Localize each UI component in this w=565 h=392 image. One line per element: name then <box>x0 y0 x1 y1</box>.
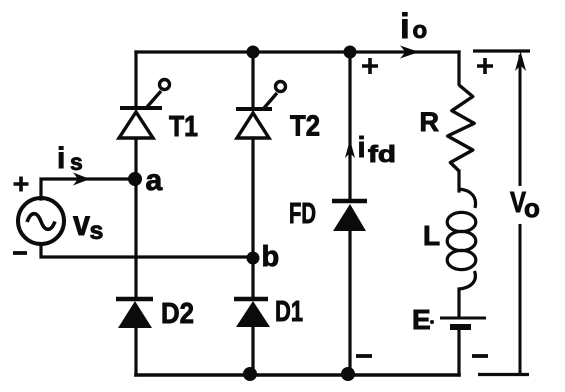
wire bottom rail <box>136 373 459 377</box>
minus sign fd bottom <box>356 354 372 358</box>
plus sign dc rail <box>362 58 378 74</box>
thyristor T1 <box>119 80 170 139</box>
wire battery to bottom rail <box>457 328 460 375</box>
arrow is <box>73 173 90 186</box>
svg-text:s: s <box>90 217 104 245</box>
plus sign load <box>477 58 493 74</box>
svg-text:L: L <box>423 220 440 251</box>
svg-text:b: b <box>262 241 280 273</box>
svg-text:o: o <box>524 193 540 223</box>
inductor L <box>447 189 476 289</box>
plus sign source <box>14 177 29 192</box>
node a junction dot <box>128 172 142 186</box>
freewheeling diode FD <box>332 201 367 231</box>
wire top rail <box>136 50 459 53</box>
wire D2 anode to bottom rail <box>134 329 137 375</box>
label vs <box>73 204 103 245</box>
minus sign load bottom <box>472 354 488 358</box>
thyristor T2 <box>236 82 286 139</box>
svg-text:s: s <box>70 149 83 175</box>
label Vo <box>510 187 540 223</box>
minus sign source <box>13 251 27 255</box>
svg-text:T1: T1 <box>169 111 198 143</box>
wire source plus lead <box>41 179 136 199</box>
wire D1 anode to bottom rail <box>251 328 254 375</box>
resistor R <box>448 85 475 171</box>
vo arrow vertical line <box>519 55 522 374</box>
svg-text:i: i <box>358 132 366 164</box>
svg-text:o: o <box>413 17 428 44</box>
svg-text:D2: D2 <box>161 298 194 330</box>
label ifd <box>358 132 397 167</box>
wire T2 cathode to node b <box>251 138 254 258</box>
node b junction dot <box>247 252 260 265</box>
wire inductor to battery <box>457 289 460 317</box>
svg-text:a: a <box>146 164 163 197</box>
wire node a to D2 cathode <box>134 179 137 298</box>
dot after E <box>430 320 434 324</box>
wire resistor to inductor <box>457 171 460 191</box>
wire FD cathode lead <box>348 52 351 200</box>
ac source vs <box>18 198 64 244</box>
wire T1 top lead <box>134 52 137 107</box>
vo arrowhead <box>515 51 526 71</box>
arrow ifd <box>345 140 355 159</box>
svg-text:fd: fd <box>368 141 396 167</box>
svg-text:R: R <box>420 107 440 137</box>
vo arrow bottom bar <box>478 373 529 376</box>
diode D1 <box>234 299 270 327</box>
svg-text:E: E <box>412 304 431 335</box>
svg-text:i: i <box>400 7 410 46</box>
label io <box>400 7 427 46</box>
wire T2 top lead <box>251 52 254 108</box>
wire FD anode to bottom rail <box>348 232 351 375</box>
wire source minus lead to node b <box>41 244 253 257</box>
svg-text:D1: D1 <box>275 296 303 328</box>
svg-text:v: v <box>73 204 90 243</box>
wire load top lead <box>457 52 460 84</box>
label is <box>57 142 83 175</box>
wire node b to D1 cathode <box>251 258 254 298</box>
junction dot FD bottom <box>341 367 355 381</box>
arrow io <box>400 46 419 59</box>
junction dot D1 bottom <box>243 367 257 381</box>
svg-text:i: i <box>57 142 65 175</box>
svg-text:FD: FD <box>289 198 316 230</box>
battery E <box>440 318 486 327</box>
wire T1 cathode to node a <box>134 139 137 179</box>
junction dot FD top <box>344 46 357 59</box>
diode D2 <box>116 299 153 328</box>
vo arrow top bar <box>473 49 530 52</box>
svg-text:T2: T2 <box>290 111 320 143</box>
junction dot T2 top <box>247 46 260 59</box>
